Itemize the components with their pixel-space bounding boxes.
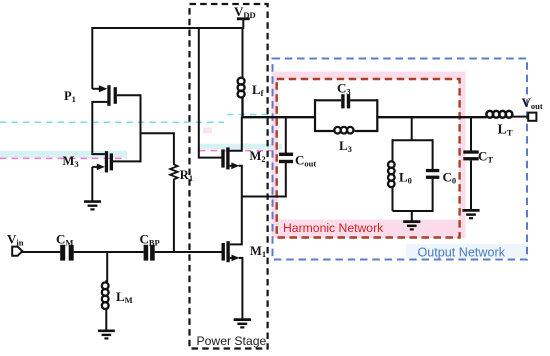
capacitor CM <box>60 245 73 261</box>
input terminal Vin <box>12 247 22 256</box>
wire: right vertical node between P1/M3 <box>140 94 142 162</box>
capacitor CBP <box>144 245 155 261</box>
light blue band behind Output Network text <box>406 244 528 258</box>
Power Stage dashed box (black) <box>190 4 268 349</box>
capacitor C3 <box>341 94 350 108</box>
wire: branch to R1 <box>141 133 174 165</box>
wire: long vertical from top rail down to M2 gate <box>199 27 222 158</box>
capacitor C0 <box>426 169 439 179</box>
ground (M1) <box>234 320 251 328</box>
wire: LT to output terminal <box>512 116 528 118</box>
wire: CT stem <box>470 117 472 151</box>
cyan dashed artifact line segment B <box>227 114 268 116</box>
inductor L0 <box>388 161 395 187</box>
wire: tank bottom to ground <box>411 211 413 221</box>
inductor LM <box>102 280 109 309</box>
transistor P1 <box>92 85 140 106</box>
cyan dashed artifact line <box>0 121 224 123</box>
harmonic tank C3/L3 rectangle <box>315 99 377 132</box>
magenta dashed artifact line segment B <box>199 150 280 152</box>
wire: LM branch down <box>106 252 108 282</box>
highlight band (cyan selection artifact across M3/M2 gate row) <box>0 151 127 158</box>
resistor R1 <box>170 165 177 182</box>
transistor M2 <box>221 117 242 246</box>
svg-text:Harmonic Network: Harmonic Network <box>283 221 384 235</box>
magenta dashed artifact line <box>0 157 127 159</box>
svg-text:Power Stage: Power Stage <box>197 334 267 348</box>
Output Network dashed box (blue) <box>273 59 528 260</box>
Harmonic Network dashed box (red) <box>277 79 460 238</box>
transistor M1 <box>222 241 243 319</box>
svg-text:Output Network: Output Network <box>418 246 506 260</box>
wire: CM to CBP with LM junction <box>74 251 144 253</box>
wire: top rail from P1 column to VDD column <box>92 27 243 29</box>
pink halo right strip <box>459 72 466 239</box>
wire: P1 drain column down to M3 gate <box>91 101 93 155</box>
wire: drain node to Cout tap <box>242 196 286 198</box>
wire: LM to ground <box>105 308 107 330</box>
ground (LM) <box>98 331 115 339</box>
pink halo bottom band behind Harmonic Network text <box>277 220 465 239</box>
inductor L3 <box>334 127 353 134</box>
VDD supply bar <box>237 17 250 29</box>
faint pink smudge artifact <box>203 128 212 134</box>
wire: CT to ground <box>470 160 472 210</box>
wire: CBP to M1 gate <box>155 251 222 253</box>
pink halo left strip <box>272 79 278 238</box>
wire: R1 bottom to input rail <box>173 181 175 252</box>
inductor Lf <box>238 27 245 118</box>
wire: stem down to L0/C0 tank <box>411 117 413 141</box>
L0/C0 tank rectangle <box>393 139 433 212</box>
highlight band segment B <box>199 144 282 150</box>
inductor LT <box>486 111 512 118</box>
transistor M3 <box>92 151 140 172</box>
ground (CT) <box>462 210 479 218</box>
wire: tank to output line <box>377 116 486 118</box>
capacitor CT <box>463 150 478 160</box>
output terminal Vout <box>528 113 536 121</box>
pink halo around harmonic box (top band) <box>272 72 466 80</box>
ground (M3) <box>84 202 101 210</box>
wire: drop from top rail to P1 source arrow <box>91 27 93 89</box>
wire: Vin to CM <box>22 251 60 253</box>
wire: M3 source to ground <box>91 167 93 201</box>
wire: main output line from Lf node into harmonic tank <box>242 116 315 118</box>
capacitor Cout <box>279 116 293 198</box>
ground (L0/C0) <box>403 222 420 230</box>
